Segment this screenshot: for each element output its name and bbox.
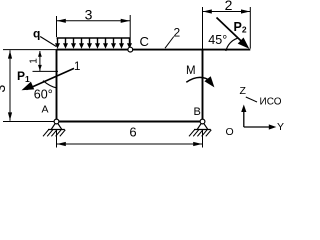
distributed load q arrows [55,38,132,49]
svg-text:60°: 60° [34,87,53,101]
support A: triangle legs [48,123,65,129]
svg-text:3: 3 [85,7,93,23]
bottom chord member A-B [57,121,203,123]
top chord member (horizontal beam) [57,49,251,51]
dimension 3 (top, over load) [57,7,131,47]
right vertical member (column at B) [202,50,204,122]
svg-text:2: 2 [174,26,181,40]
svg-text:C: C [140,34,149,49]
left vertical member (column at A) [56,50,58,122]
force P2 (45 deg arrow into top right corner) [217,18,250,49]
svg-text:A: A [42,104,49,116]
support B: hatching [189,130,211,137]
leader line from q to load [40,37,56,47]
dimension 3 (left, column height) [0,50,12,120]
extension line below A for dim 6 [56,130,58,148]
dimension 6 (bottom span A-B) [57,125,203,147]
bottom-left extension line for dim 3 (vertical) [3,121,57,123]
svg-text:ИСО: ИСО [260,96,282,107]
top-left extension line for dim 3 (vertical) [3,49,57,51]
force P1 (30 deg below horizontal, down-left) with leader label 1 [22,68,75,90]
svg-text:3: 3 [0,84,8,92]
moment M arc with arrowhead [186,76,214,87]
svg-text:1: 1 [74,61,80,73]
dimension 1 (vertical, P1 offset) [29,51,58,72]
svg-text:Y: Y [277,121,284,133]
svg-text:M: M [186,65,196,77]
60deg angle arc [43,81,56,88]
coordinate axes O-Y-Z (ISO frame) [241,105,276,130]
svg-text:6: 6 [129,125,136,140]
support A: hatching [43,130,65,137]
svg-text:1: 1 [29,58,40,64]
dimension 2 (top right) [203,0,251,14]
extension line above right column for dim 2 [202,7,204,50]
support B: triangle legs [194,123,211,129]
svg-text:P1: P1 [17,69,30,84]
distributed load q top line [57,37,131,39]
svg-text:O: O [226,126,234,138]
svg-text:45°: 45° [208,33,227,47]
support A: pin circle [54,119,59,124]
svg-text:q: q [33,27,40,41]
support B: pin circle [200,119,205,124]
hinge C (small circle) [128,47,133,52]
svg-text:2: 2 [225,0,233,13]
45deg angle arc [226,38,238,51]
svg-text:B: B [194,106,201,118]
leader line to ISO label [246,97,257,102]
svg-text:Z: Z [240,85,247,97]
extension line below B for dim 6 [202,130,204,148]
right extension line for dim 2 [249,7,251,49]
leader line for label 2 [165,37,174,49]
svg-text:P2: P2 [234,20,247,35]
